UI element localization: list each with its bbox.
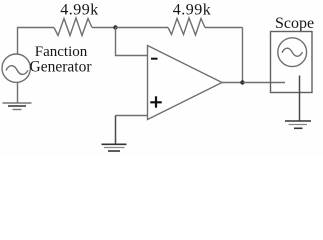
oscilloscope sine symbol: [278, 38, 307, 67]
op-amp inverting pin label "-": [151, 58, 158, 60]
op-amp U1: [148, 46, 223, 120]
wire: node A to R2: [116, 27, 169, 29]
wire: node B to oscilloscope input terminal: [243, 82, 286, 84]
svg-text:Scope: Scope: [275, 15, 314, 32]
ground (oscilloscope): [285, 121, 311, 128]
resistor R2: [168, 18, 205, 35]
function generator V1: [2, 54, 30, 82]
oscilloscope XSC1 box: [271, 32, 313, 93]
svg-text:Generator: Generator: [30, 59, 93, 76]
ground (op-amp non-inverting input): [102, 144, 127, 151]
wire: oscilloscope ground terminal down to ground: [299, 76, 301, 121]
ground (function generator): [3, 103, 32, 110]
svg-text:4.99k: 4.99k: [173, 2, 212, 19]
wire: op-amp output to node B: [222, 82, 243, 84]
wire: function generator bottom lead to ground: [17, 82, 19, 103]
wire: function generator top lead up and right to R1: [18, 28, 55, 54]
wire: feedback vertical down to node B: [242, 28, 244, 83]
wire: non-inverting input down to ground: [115, 116, 117, 145]
node B junction dot: [240, 80, 244, 84]
svg-text:4.99k: 4.99k: [60, 2, 99, 19]
resistor R1: [54, 18, 92, 36]
wire: R2 right lead to feedback corner: [205, 27, 243, 29]
node A junction dot: [113, 25, 117, 29]
wire: R1 right lead to node A: [92, 27, 116, 29]
wire: node A down and right to op-amp inverting input: [116, 28, 148, 56]
wire: op-amp non-inverting input: [116, 115, 148, 117]
op-amp non-inverting pin label "+": [150, 96, 161, 107]
